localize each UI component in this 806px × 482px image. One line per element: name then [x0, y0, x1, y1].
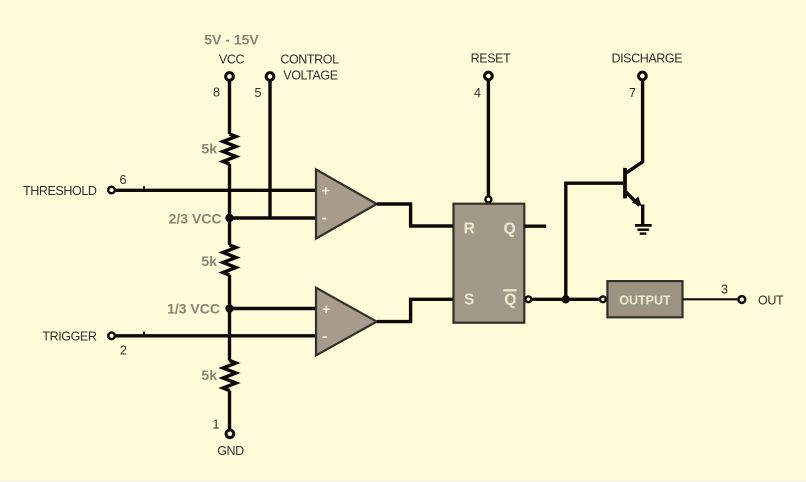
svg-text:5k: 5k [201, 253, 217, 269]
wire R1 to 2/3VCC node [228, 164, 231, 218]
pin 2 terminal [108, 333, 115, 340]
tick on trigger wire [143, 332, 145, 335]
svg-text:1/3 VCC: 1/3 VCC [167, 301, 220, 317]
transistor Q1 collector wire [627, 80, 643, 173]
pin 7 terminal [639, 72, 647, 80]
svg-text:3: 3 [721, 283, 728, 297]
resistor R3 5k [223, 361, 236, 391]
svg-text:1: 1 [213, 418, 220, 432]
svg-text:6: 6 [120, 173, 127, 187]
wire control voltage down [268, 81, 271, 218]
svg-text:S: S [464, 292, 474, 309]
wire Q output stub [524, 224, 546, 227]
svg-text:Q: Q [504, 292, 516, 309]
pin 4 terminal [485, 72, 493, 80]
reset terminal on flip-flop top [485, 196, 491, 202]
wire output block to pin 3 [683, 298, 738, 300]
output block [607, 281, 682, 317]
wire junction up to transistor base [566, 183, 623, 299]
svg-text:2: 2 [120, 344, 127, 358]
flip-flop U3 [454, 204, 525, 323]
pin 5 terminal [266, 73, 274, 81]
wire 1/3VCC node to comparator + [230, 307, 317, 310]
node 2/3 VCC junction dot [225, 214, 233, 222]
wire U1 output to R input [377, 204, 454, 226]
svg-text:7: 7 [629, 86, 636, 100]
svg-text:Q: Q [504, 220, 516, 237]
wire reset down to flip-flop [487, 80, 490, 196]
Q-bar output terminal [526, 296, 532, 302]
wire VCC rail top [228, 81, 231, 134]
svg-text:8: 8 [213, 86, 220, 100]
pin 1 GND terminal [226, 430, 234, 438]
Q-bar overline [503, 289, 516, 291]
bottom edge artifact strip [0, 480, 806, 482]
svg-text:-: - [322, 210, 327, 227]
svg-text:R: R [464, 220, 475, 237]
svg-text:5k: 5k [201, 367, 217, 383]
pin 6 terminal [108, 187, 115, 194]
svg-text:RESET: RESET [471, 52, 511, 66]
ground symbol [635, 224, 652, 227]
svg-text:VCC: VCC [219, 53, 245, 67]
svg-text:4: 4 [474, 86, 481, 100]
wire emitter to ground [641, 205, 644, 225]
resistor R2 5k [223, 245, 236, 275]
wire U2 output to S input [377, 299, 454, 321]
svg-text:5V - 15V: 5V - 15V [204, 32, 259, 48]
transistor Q1 base bar [623, 168, 627, 199]
svg-text:GND: GND [217, 444, 244, 458]
wire R2 to 1/3VCC node [228, 275, 231, 309]
wire 2/3VCC node to R2 [228, 218, 231, 245]
wire R3 to GND terminal [228, 391, 231, 430]
output block input terminal [600, 296, 606, 302]
node Q-bar junction dot [562, 295, 570, 303]
svg-text:TRIGGER: TRIGGER [42, 330, 97, 344]
pin 3 terminal [738, 296, 745, 303]
wire 1/3VCC node to R3 [228, 309, 231, 361]
transistor Q1 emitter with arrow [626, 192, 640, 206]
wire 2/3VCC node to comparator - [230, 216, 317, 219]
svg-text:OUT: OUT [758, 293, 784, 307]
svg-text:5: 5 [255, 86, 262, 100]
svg-text:-: - [322, 328, 327, 345]
pin 8 terminal [226, 73, 234, 81]
svg-text:2/3 VCC: 2/3 VCC [169, 211, 222, 227]
tick on threshold wire [143, 186, 145, 189]
svg-text:VOLTAGE: VOLTAGE [283, 69, 337, 83]
svg-text:THRESHOLD: THRESHOLD [23, 184, 97, 198]
op-amp U2 trigger comparator [316, 288, 377, 356]
svg-text:+: + [322, 184, 330, 200]
node 1/3 VCC junction dot [225, 304, 233, 312]
svg-text:CONTROL: CONTROL [280, 53, 339, 67]
svg-text:DISCHARGE: DISCHARGE [611, 52, 682, 66]
svg-text:5k: 5k [201, 141, 217, 157]
op-amp U1 threshold comparator [316, 169, 377, 238]
resistor R1 5k [223, 134, 236, 164]
wire Q-bar to output stage [532, 298, 599, 301]
svg-text:OUTPUT: OUTPUT [619, 293, 671, 307]
wire trigger to comparator - [116, 334, 317, 337]
wire threshold to comparator + [115, 189, 316, 192]
svg-text:+: + [322, 302, 330, 318]
